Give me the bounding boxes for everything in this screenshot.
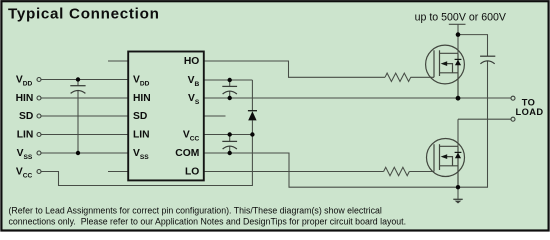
diode D1 bootstrap (248, 111, 257, 121)
svg-text:COM: COM (175, 148, 199, 159)
junction node switch (456, 96, 461, 101)
wire cap C1 branch bottom (77, 91, 79, 153)
wire VCC pin (204, 134, 252, 136)
terminal SD (37, 114, 41, 118)
svg-text:up to 500V or 600V: up to 500V or 600V (415, 12, 507, 24)
wire VB (204, 79, 252, 81)
svg-text:TO: TO (522, 98, 536, 108)
wire ground lead (457, 187, 459, 199)
wire stub LO left (108, 171, 128, 173)
svg-text:SD: SD (133, 111, 147, 122)
wire diode branch lower (251, 120, 253, 134)
svg-text:connections only. Please refe: connections only. Please refer to our Ap… (9, 216, 407, 226)
junction node COM-cap (228, 151, 232, 155)
capacitor C3 (VCC-COM) (222, 141, 237, 149)
svg-text:LOAD: LOAD (516, 107, 544, 117)
transistor Q2 body arrow (441, 154, 448, 159)
IC U1 gate driver box (128, 52, 204, 181)
svg-text:LIN: LIN (133, 129, 150, 140)
wire stub right (204, 115, 226, 117)
resistor Rg1 (385, 73, 411, 81)
diode body Q1 (455, 58, 462, 60)
wire COM (204, 153, 458, 187)
capacitor C1 (VDD-VSS) (70, 86, 85, 94)
svg-text:(Refer to Lead Assignments for: (Refer to Lead Assignments for correct p… (9, 206, 382, 216)
ground symbol (453, 199, 462, 203)
capacitor C4 bus (480, 56, 495, 64)
terminal VCC (37, 170, 41, 174)
terminal VDD (37, 78, 41, 82)
svg-text:LIN: LIN (17, 129, 34, 140)
wire HIN (41, 97, 128, 99)
wire VS (204, 97, 511, 99)
svg-text:LO: LO (185, 166, 199, 177)
transistor Q1 body arrow (441, 61, 448, 66)
svg-text:HO: HO (184, 56, 199, 67)
svg-text:SD: SD (19, 111, 33, 122)
wire VDD (41, 79, 128, 81)
junction node ground (456, 185, 460, 189)
wire vcc cap leads (229, 135, 231, 154)
junction node VCC-diode (250, 132, 254, 136)
wire SD (41, 115, 128, 117)
wire switch node to load (458, 119, 511, 146)
terminal VSS (37, 151, 41, 155)
wire stub HO left (108, 60, 128, 62)
terminal LIN (37, 133, 41, 137)
terminal TO LOAD lower (511, 117, 515, 121)
wire LO (204, 171, 384, 173)
capacitor C2 bootstrap (VB-VS) (222, 86, 237, 94)
resistor Rg2 (384, 167, 410, 175)
wire LIN (41, 134, 128, 136)
transistor Q2 low-side MOSFET (427, 139, 465, 188)
junction node bus rail (456, 32, 461, 37)
junction node VCC-cap (228, 132, 232, 136)
wire bus cap lower lead (458, 61, 488, 187)
svg-text:Typical Connection: Typical Connection (8, 6, 160, 23)
terminal HIN (37, 96, 41, 100)
junction node VSS-cap (76, 151, 80, 155)
wire HO (204, 61, 385, 77)
wire diode branch upper (251, 80, 253, 111)
wire VCC feed (41, 135, 252, 186)
transistor Q1 high-side MOSFET (426, 45, 465, 98)
wire bus rail (449, 24, 488, 56)
svg-text:HIN: HIN (133, 93, 151, 104)
svg-text:HIN: HIN (16, 93, 34, 104)
diode body Q2 (455, 151, 462, 153)
wire HO gate lead (411, 76, 435, 78)
terminal TO LOAD upper (511, 96, 515, 100)
junction node VB (228, 78, 232, 82)
wire bootstrap cap leads (229, 80, 231, 98)
wire VSS (41, 152, 128, 154)
junction node VS (228, 96, 232, 100)
wire cap C1 branch top (77, 80, 79, 86)
wire LO gate lead (409, 171, 434, 173)
junction node VDD-cap (76, 77, 80, 81)
